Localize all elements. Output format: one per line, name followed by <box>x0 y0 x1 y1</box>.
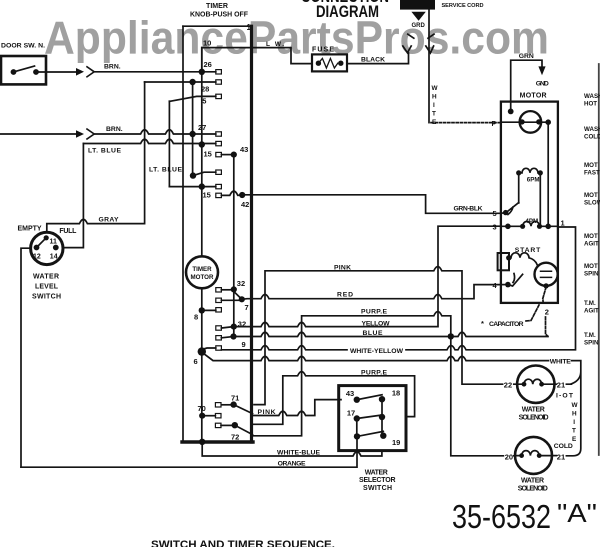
junction dot contact 27 <box>189 131 195 137</box>
fuse F1 <box>312 54 347 71</box>
junction dot GRN in motor <box>508 109 514 115</box>
svg-text:I-OT: I-OT <box>556 392 574 399</box>
junction dot purple/blue <box>448 333 454 339</box>
svg-text:72: 72 <box>231 433 239 442</box>
wire RED (timer 7 to motor 4) <box>242 285 501 300</box>
terminal square 27 <box>216 132 222 136</box>
svg-text:9: 9 <box>242 340 246 349</box>
pin label 15 (lower) <box>203 190 211 199</box>
junction dot 43 <box>231 152 237 158</box>
motor start winding <box>506 253 537 265</box>
svg-text:T: T <box>572 428 576 435</box>
pin label 42 <box>241 200 249 209</box>
svg-text:ORANGE: ORANGE <box>278 460 306 467</box>
label WATER LEVEL SWITCH <box>32 274 61 301</box>
label 20 <box>505 452 513 461</box>
svg-text:PURP.E: PURP.E <box>361 369 387 376</box>
svg-text:MOT: MOT <box>584 162 598 169</box>
svg-text:AppliancePartsPros.com: AppliancePartsPros.com <box>44 12 549 64</box>
wire 21 hot stub <box>555 383 572 385</box>
svg-text:6: 6 <box>194 357 198 366</box>
contact arm 32a to 7 <box>234 292 242 300</box>
label 21 (cold) <box>557 452 565 461</box>
junction dot 72 <box>232 422 238 428</box>
contact row 72 <box>221 424 235 426</box>
label HOT <box>556 392 574 399</box>
svg-text:LT. BLUE: LT. BLUE <box>88 148 121 155</box>
motor coil 6PM left lead <box>518 173 520 203</box>
terminal square y174 row <box>216 170 222 174</box>
label WHITE (inline) <box>550 359 571 366</box>
svg-text:EMPTY: EMPTY <box>18 226 42 233</box>
svg-text:SOLENOID: SOLENOID <box>519 414 549 421</box>
terminal square 32a <box>216 288 222 292</box>
ground arrow GND (motor) <box>538 66 545 75</box>
label BRN. (lower) <box>106 126 123 133</box>
svg-text:SERVICE CORD: SERVICE CORD <box>442 3 484 9</box>
wire WHITE-YELLOW (timer 6 to motor 1) <box>221 227 575 350</box>
junction dot 32b <box>231 324 237 330</box>
svg-text:AGIT: AGIT <box>584 241 599 248</box>
label EMPTY <box>18 226 42 233</box>
svg-text:FAST: FAST <box>584 170 600 177</box>
selector mid right dot <box>379 414 385 420</box>
svg-text:21: 21 <box>557 452 565 461</box>
svg-text:35-6532: 35-6532 <box>452 498 551 535</box>
contact row 28 wire <box>145 81 216 83</box>
svg-text:TIMER: TIMER <box>206 3 228 10</box>
contact row 6 blob <box>198 347 206 355</box>
wire WHITE-BLUE (timer rail to selector 19) <box>202 442 382 456</box>
pin label 11 <box>50 239 58 246</box>
junction dot 7 <box>239 296 245 302</box>
pin label 18 <box>392 389 400 398</box>
terminal square 5 <box>216 94 222 98</box>
part number 35-6532 <box>452 498 551 535</box>
timer left rail <box>182 26 184 442</box>
pin label 6 <box>194 357 198 366</box>
svg-text:21: 21 <box>557 381 565 390</box>
timer motor TM <box>186 256 218 288</box>
pin label 12 <box>33 254 41 261</box>
svg-text:AGIT: AGIT <box>584 308 599 315</box>
water selector switch <box>339 386 406 451</box>
svg-text:E: E <box>572 436 577 443</box>
pin label 71 <box>231 394 239 403</box>
svg-text:43: 43 <box>240 145 248 154</box>
svg-text:T.M.: T.M. <box>584 300 596 307</box>
arrowhead BRN1 <box>76 68 84 76</box>
svg-text:MOT: MOT <box>584 233 598 240</box>
wire YELLOW (timer 32b to motor 3) <box>234 226 501 326</box>
svg-text:WASH: WASH <box>584 126 600 133</box>
terminal square 15a <box>216 152 222 156</box>
contact row 9 <box>221 337 233 338</box>
svg-text:26: 26 <box>204 60 212 69</box>
contact row 71 <box>221 404 233 406</box>
terminal square 72 <box>215 423 221 427</box>
svg-text:32: 32 <box>237 279 245 288</box>
svg-text:T.M.: T.M. <box>584 332 596 339</box>
svg-text:*: * <box>481 319 484 328</box>
svg-text:3: 3 <box>493 223 497 232</box>
svg-text:WATER: WATER <box>522 407 545 414</box>
bottom cut caption SWITCH AND TIMER SEQUENCE <box>151 539 335 547</box>
terminal square 26 <box>216 70 222 74</box>
junction dot right rail bottom <box>545 224 551 230</box>
contact row arm at y174 <box>193 172 216 175</box>
svg-text:PINK: PINK <box>334 264 351 271</box>
junction dot timer bottom <box>199 439 205 445</box>
wire water level switch 12 to ORANGE rail <box>21 248 31 467</box>
selector left link 17-bottom <box>356 419 358 437</box>
wire PURPLE1 (timer 72 to cold solenoid 20) <box>253 312 516 456</box>
contact row 8 <box>202 309 216 311</box>
label GRN <box>519 53 534 60</box>
motor coil 6PM right lead <box>539 173 541 226</box>
timer right thick rail <box>250 26 253 442</box>
pin label 1 (timer top) <box>247 23 252 32</box>
dashed capacitor lead <box>546 317 548 336</box>
svg-text:SPIN: SPIN <box>584 271 599 278</box>
pin label 3 <box>493 223 497 232</box>
svg-text:71: 71 <box>231 394 239 403</box>
wire PURPLE2 (timer rail to selector common) <box>253 372 415 425</box>
svg-text:MOTOR: MOTOR <box>520 92 547 99</box>
label PINK (upper) <box>334 264 351 271</box>
label FULL <box>59 228 77 235</box>
selector arm bottom <box>357 431 383 436</box>
pin label 43 <box>240 145 248 154</box>
pin label 2 <box>545 308 549 317</box>
svg-text:15: 15 <box>204 150 212 159</box>
svg-text:HOT: HOT <box>584 101 597 108</box>
svg-text:I: I <box>573 419 575 426</box>
contact arm 71 to rail <box>234 405 253 414</box>
pin label 14 <box>50 254 58 261</box>
timer inner rail below timer motor down to bottom <box>201 288 203 442</box>
terminal square 9 <box>216 336 222 340</box>
wire WHITE dotted to P <box>431 122 500 124</box>
label START <box>515 247 541 254</box>
svg-text:WHITE-BLUE: WHITE-BLUE <box>277 449 320 456</box>
label PURP.E (upper) <box>361 308 387 315</box>
label 21 (hot) <box>557 381 565 390</box>
label FUSE <box>312 47 334 54</box>
label WHITE-YELLOW <box>350 348 404 355</box>
wire ORANGE (water level 12 to selector 17) <box>21 436 357 467</box>
svg-text:SOLENOID: SOLENOID <box>518 485 548 492</box>
arrowhead BRN2 <box>76 130 84 138</box>
terminal square LT.BLUE row <box>216 141 222 145</box>
svg-text:4PM: 4PM <box>525 218 538 225</box>
timer bottom edge (thick) <box>182 440 253 443</box>
junction dot LT.BLUE row <box>199 141 205 147</box>
svg-text:22: 22 <box>504 381 512 390</box>
label WATER SOLENOID (cold) <box>518 478 548 493</box>
motor overload protector <box>498 253 509 270</box>
svg-text:BRN.: BRN. <box>106 126 123 133</box>
svg-text:20: 20 <box>505 452 513 461</box>
contact 5 arm <box>169 96 215 101</box>
pin label 19 <box>392 438 400 447</box>
label RED <box>337 291 353 298</box>
scan edge right border <box>598 64 600 455</box>
terminal square 6 <box>216 346 222 350</box>
svg-text:LEVEL: LEVEL <box>35 283 59 290</box>
wire GRN-BLK timer 42 to motor 5 <box>242 195 501 214</box>
svg-text:H: H <box>432 94 437 101</box>
svg-text:42: 42 <box>241 200 249 209</box>
timer label TIMER KNOB-PUSH OFF <box>190 3 249 19</box>
svg-text:6PM: 6PM <box>527 177 540 184</box>
svg-text:12: 12 <box>33 254 41 261</box>
svg-text:BLACK: BLACK <box>361 57 385 64</box>
pin label 4 <box>493 281 498 290</box>
label GRN-BLK <box>454 205 483 212</box>
pin label 5 (motor) <box>493 209 497 218</box>
svg-text:8: 8 <box>194 313 198 322</box>
svg-text:BLUE: BLUE <box>363 330 383 337</box>
contact row 32b <box>221 327 233 328</box>
water solenoid HOT <box>517 366 555 403</box>
svg-text:11: 11 <box>50 239 58 246</box>
selector contact 43 dot <box>354 397 360 403</box>
svg-text:43: 43 <box>346 389 354 398</box>
motor speed switch arm (5) <box>501 203 519 215</box>
svg-text:DOOR SW. N.: DOOR SW. N. <box>1 43 45 50</box>
svg-text:MOTOR: MOTOR <box>191 274 214 281</box>
water level switch <box>31 232 63 264</box>
wire fuse feed: timer 10 up over to fuse <box>202 48 312 72</box>
label WHITE (vertical letters) <box>432 85 439 126</box>
label GND <box>536 80 549 87</box>
selector contact 18 dot <box>379 396 385 402</box>
svg-text:7: 7 <box>245 303 249 312</box>
wire WHITE cord down to motor P <box>428 10 430 123</box>
contact arm 72 to rail <box>235 425 253 434</box>
wire BRN1 from door switch to timer <box>36 71 216 73</box>
door switch <box>1 56 46 84</box>
motor box <box>501 102 558 303</box>
svg-text:28: 28 <box>201 85 209 94</box>
label WHITE (stacked right) <box>572 402 579 443</box>
svg-text:SWITCH AND TIMER SEQUENCE.: SWITCH AND TIMER SEQUENCE. <box>151 539 335 547</box>
svg-text:COLD: COLD <box>584 134 600 141</box>
contact row 70 <box>202 415 215 417</box>
terminal square 8 <box>216 308 222 312</box>
pin label P <box>492 121 497 128</box>
selector bottom right dot 19 <box>380 433 386 439</box>
label MOTOR <box>520 92 547 99</box>
svg-text:10: 10 <box>203 39 211 48</box>
pin label 8 <box>194 313 198 322</box>
wire 21 cold stub <box>552 455 556 457</box>
label BLACK <box>361 57 385 64</box>
svg-text:15: 15 <box>203 190 211 199</box>
pin label 9 <box>242 340 246 349</box>
wire BLACK fuse to service cord <box>347 53 409 64</box>
right margin labels <box>584 93 600 347</box>
junction dot 9 <box>230 333 236 339</box>
svg-text:SWITCH: SWITCH <box>363 485 392 492</box>
pin label 17 <box>347 409 355 418</box>
svg-text:BRN.: BRN. <box>104 63 121 70</box>
pin label 32 (lower) <box>238 320 246 329</box>
svg-text:GRN: GRN <box>519 53 534 60</box>
pin label 32 (upper) <box>237 279 245 288</box>
svg-text:MOT: MOT <box>584 263 598 270</box>
label SERVICE CORD <box>442 3 484 9</box>
label YELLOW <box>362 320 391 327</box>
pin label 43 (selector) <box>346 389 354 398</box>
svg-text:FULL: FULL <box>59 228 77 235</box>
svg-text:2: 2 <box>545 308 549 317</box>
svg-text:'5: '5 <box>201 97 207 106</box>
svg-text:GRN-BLK: GRN-BLK <box>454 205 483 212</box>
junction dot 71 <box>230 401 236 407</box>
title CONNECTION (cut at top) <box>301 0 389 6</box>
svg-text:P: P <box>492 121 497 128</box>
contact row y186 wire <box>169 186 215 188</box>
junction dot y174 row <box>190 172 196 178</box>
svg-text:PINK: PINK <box>258 409 276 416</box>
dashed link to capacitor 2 <box>543 287 546 303</box>
cord break chevrons <box>403 34 434 53</box>
terminal square 70 <box>215 414 221 418</box>
door switch label <box>1 43 45 50</box>
svg-text:TIMER: TIMER <box>192 266 212 273</box>
wire BRN2 from left edge <box>0 130 216 134</box>
svg-text:SLOW: SLOW <box>584 200 600 207</box>
dashed pointer capacitor label to motor <box>526 305 539 321</box>
svg-text:I: I <box>433 102 435 109</box>
start switch (centrifugal) <box>535 263 558 289</box>
svg-text:W: W <box>432 85 439 92</box>
label PURP.E (lower) <box>361 369 387 376</box>
motor right rail <box>547 122 549 226</box>
wire PINK2 (timer rail to selector 43) <box>253 400 341 416</box>
svg-text:WATER: WATER <box>365 470 388 477</box>
contact row 7 <box>221 299 241 301</box>
svg-text:5: 5 <box>493 209 497 218</box>
contact row 15a: terminal to 43 dot <box>221 154 233 156</box>
label GRD <box>412 23 426 29</box>
wire GRAY from water level switch 11 up to contact 28 <box>47 82 145 232</box>
motor row 3 with coil 4PM <box>501 221 558 226</box>
junction dot y186 row <box>199 183 205 189</box>
motor start contact arm <box>508 274 523 287</box>
junction dot 42 <box>239 192 245 198</box>
wire GRN motor ground <box>511 60 542 111</box>
pin label 26 <box>204 60 212 69</box>
chevron BRN2 <box>87 129 94 139</box>
pin label 70 <box>198 404 206 413</box>
svg-text:70: 70 <box>198 404 206 413</box>
junction dot 70 <box>199 413 205 419</box>
svg-text:18: 18 <box>392 389 400 398</box>
contact row 6 wire to terminal <box>202 348 216 349</box>
svg-text:E: E <box>432 119 437 126</box>
svg-text:FUSE: FUSE <box>312 47 334 54</box>
label LT. BLUE (left) <box>88 148 121 155</box>
label BRN. (upper) <box>104 63 121 70</box>
svg-text:SWITCH: SWITCH <box>32 293 61 300</box>
terminal square 32b <box>216 326 222 330</box>
label 22 <box>504 381 512 390</box>
svg-text:WATER: WATER <box>33 274 59 281</box>
label WATER SELECTOR SWITCH <box>359 470 396 492</box>
svg-text:SPIN: SPIN <box>584 340 599 347</box>
junction dot contact 26 on BRN1 <box>199 69 205 75</box>
svg-text:CAPACITOR: CAPACITOR <box>489 321 524 328</box>
svg-text:WATER: WATER <box>521 478 544 485</box>
label COLD <box>554 443 573 450</box>
svg-text:"A": "A" <box>557 498 597 528</box>
label GRAY <box>99 217 119 224</box>
pin label 10 <box>203 39 211 48</box>
service cord plug (black box) <box>400 0 435 10</box>
part revision "A" <box>557 498 597 528</box>
svg-text:GND: GND <box>536 80 549 87</box>
motor row 4 <box>501 284 508 286</box>
svg-text:YELLOW: YELLOW <box>362 320 391 327</box>
pin label 15 (upper) <box>204 150 212 159</box>
terminal square 15b <box>216 193 222 197</box>
svg-text:27: 27 <box>198 123 206 132</box>
label 6PM <box>527 177 540 184</box>
pin label 28 <box>201 85 209 94</box>
svg-text:KNOB-PUSH OFF: KNOB-PUSH OFF <box>190 12 249 19</box>
label 4PM <box>525 218 538 225</box>
svg-text:DIAGRAM: DIAGRAM <box>316 2 379 21</box>
junction dot 28 <box>189 79 195 85</box>
selector arm 43-18 <box>357 395 382 400</box>
junction dots row 3 <box>505 224 511 230</box>
pin label 5 <box>201 97 207 106</box>
svg-text:MOT: MOT <box>584 192 598 199</box>
svg-text:PURP.E: PURP.E <box>361 308 387 315</box>
svg-text:14: 14 <box>50 254 58 261</box>
title DIAGRAM <box>316 2 379 21</box>
label CAPACITOR <box>481 319 524 328</box>
svg-text:WHITE: WHITE <box>550 359 571 366</box>
contact row 15b wire to dot 42 <box>221 191 242 195</box>
label LT. BLUE (second) <box>149 167 182 174</box>
svg-text:COLD: COLD <box>554 443 573 450</box>
pin label 72 <box>231 433 239 442</box>
junction dot 32a <box>231 286 237 292</box>
chevron BRN1 <box>87 67 94 77</box>
svg-text:RED: RED <box>337 291 353 298</box>
label WATER SOLENOID (hot) <box>519 407 549 422</box>
pin label 7 <box>245 303 249 312</box>
timer rail D (contacts 43/32/9) <box>233 155 235 337</box>
junction dot right rail top <box>545 119 551 125</box>
pin label 27 <box>198 123 206 132</box>
terminal square 71 <box>215 403 221 407</box>
wire BLUE (timer 9 to capacitor 2) <box>234 332 549 336</box>
pin label 1 (motor) <box>561 219 565 228</box>
timer inner rail (contact common) <box>201 48 203 257</box>
selector right rail <box>381 399 383 436</box>
label L W. <box>266 41 284 48</box>
svg-text:W: W <box>572 402 579 409</box>
ground arrow GRD (cord) <box>411 12 425 21</box>
terminal square y186 row <box>216 184 222 188</box>
svg-text:17: 17 <box>347 409 355 418</box>
selector contact 17 dot <box>354 415 360 421</box>
